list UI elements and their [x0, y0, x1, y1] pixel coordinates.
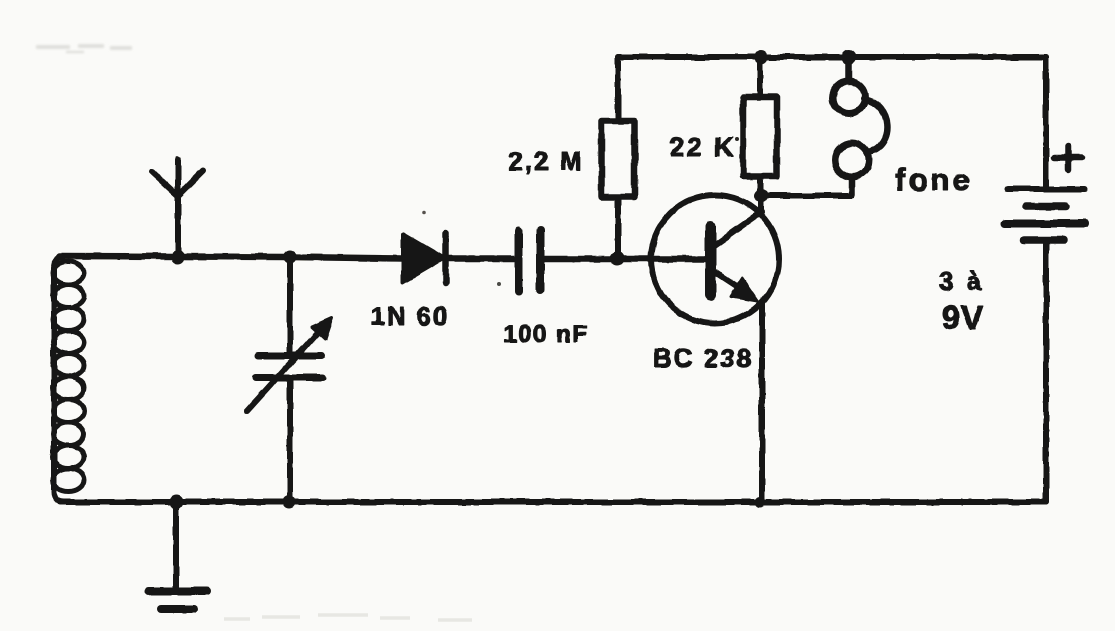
- faint bottom bleed-through: [224, 615, 472, 620]
- node top rail junction at 22K: [754, 50, 768, 64]
- node base junction: [610, 252, 624, 266]
- wire main horizontal (antenna/base line): [60, 256, 706, 259]
- node ground junction: [169, 495, 183, 509]
- faint top-left smudge: [36, 46, 132, 52]
- svg-text:100 nF: 100 nF: [503, 321, 588, 348]
- battery plus sign: [1054, 146, 1082, 170]
- wire top rail: [618, 54, 1046, 60]
- battery B1 3-9V: [1005, 57, 1085, 502]
- inductor coil L1: [53, 257, 84, 502]
- paper speck near capacitor: [497, 282, 501, 286]
- capacitor 100nF: [519, 231, 541, 292]
- svg-text:BC 238: BC 238: [653, 343, 753, 373]
- paper speck above 1N60 wire: [422, 211, 426, 215]
- transistor Q1 BC238: [651, 195, 779, 502]
- resistor 22K: [743, 57, 777, 195]
- node collector junction: [754, 189, 768, 203]
- svg-text:22 K: 22 K: [670, 132, 737, 162]
- speck after 22K label: [735, 137, 739, 141]
- wire collector to fone: [761, 193, 852, 199]
- node fone top junction: [842, 50, 857, 65]
- resistor 2.2M: [602, 57, 635, 258]
- node emitter bottom junction: [755, 497, 766, 508]
- variable capacitor CV: [247, 257, 332, 502]
- earphone fone: [833, 57, 887, 195]
- svg-text:9V: 9V: [942, 299, 984, 336]
- antenna: [152, 159, 203, 257]
- svg-text:1N 60: 1N 60: [370, 301, 449, 331]
- node variable-cap bottom junction: [283, 496, 296, 509]
- node variable-cap top junction: [284, 251, 297, 264]
- svg-text:3 à: 3 à: [939, 266, 984, 296]
- svg-text:2,2 M: 2,2 M: [508, 146, 583, 176]
- svg-text:fone: fone: [895, 162, 972, 197]
- node antenna junction: [171, 250, 185, 264]
- diode D1 1N60: [403, 233, 446, 282]
- ground: [149, 502, 207, 609]
- wire bottom rail: [60, 499, 1046, 505]
